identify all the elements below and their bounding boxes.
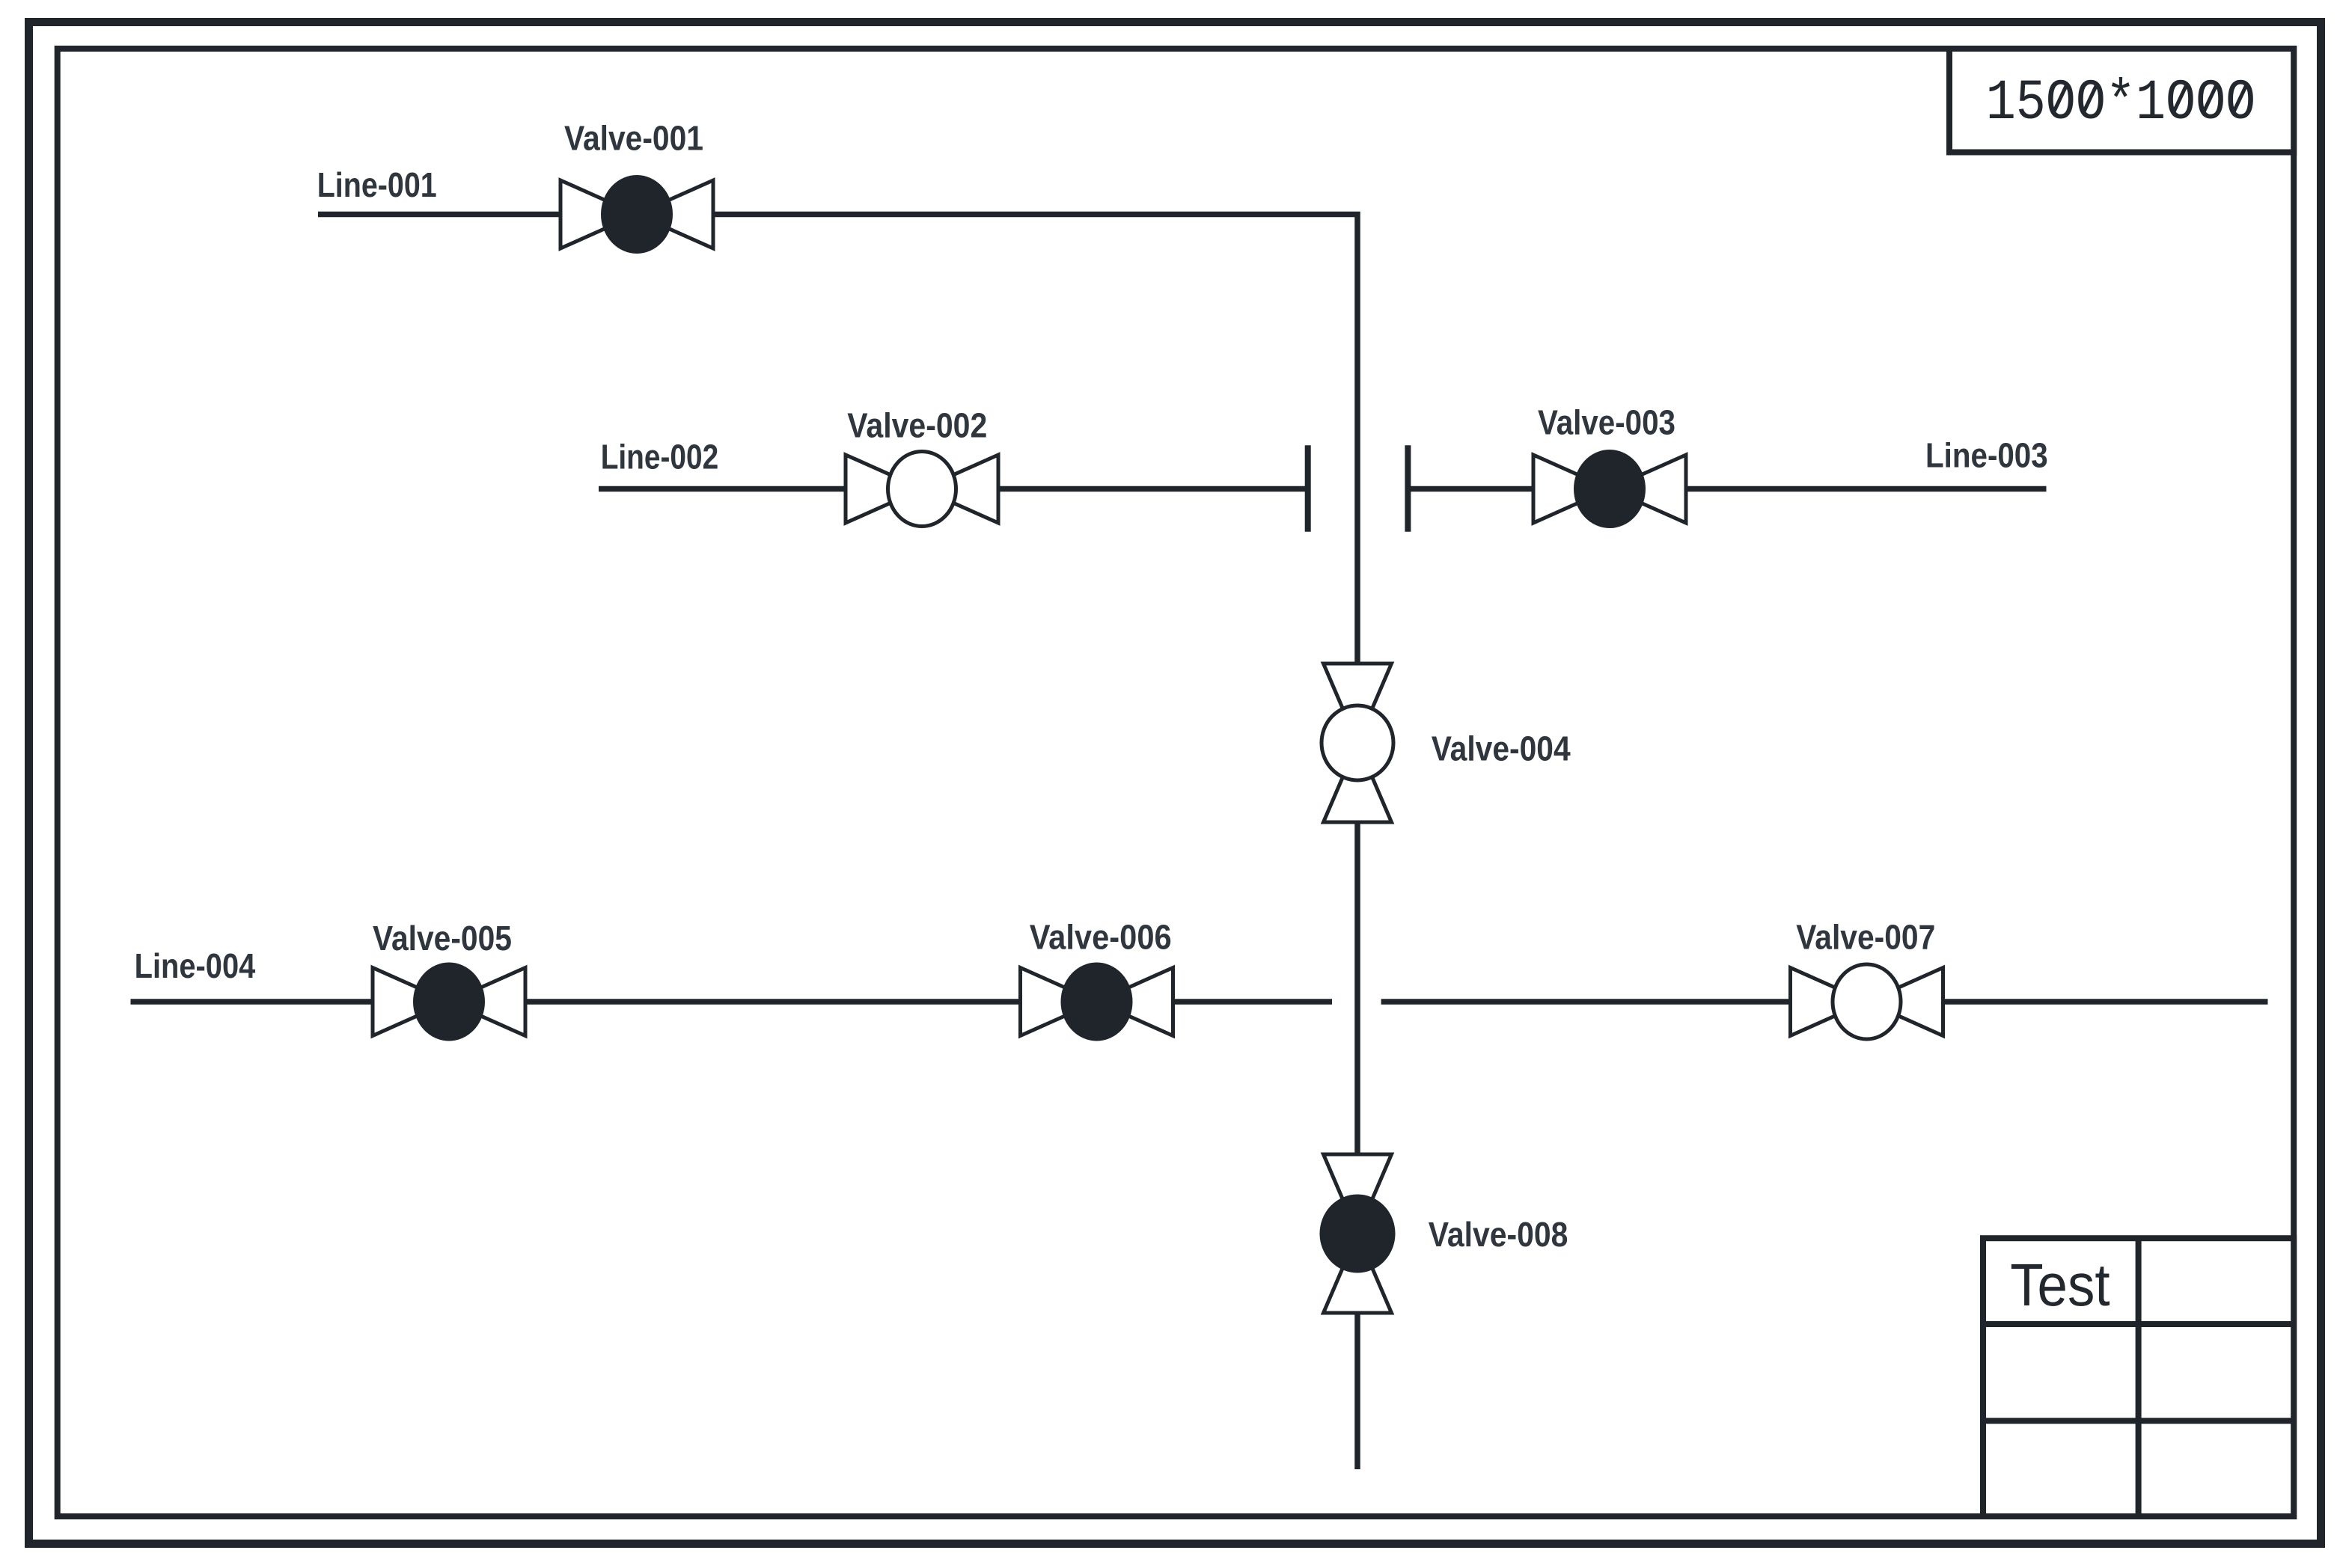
wire Line-004 right segment [1381,999,2268,1005]
valve Valve-004 (open ball valve, vertical) [1322,664,1393,822]
svg-text:Valve-007: Valve-007 [1796,918,1935,957]
valve Valve-007 (open ball valve) [1791,964,1943,1039]
valve Valve-002 (open ball valve) [846,452,998,527]
svg-text:Valve-006: Valve-006 [1030,918,1172,957]
flange cap start of Line-003 [1405,445,1411,532]
svg-text:15OO*1OOO: 15OO*1OOO [1986,71,2256,135]
flange cap end of Line-002 [1305,445,1311,532]
svg-text:Line-003: Line-003 [1925,436,2048,475]
svg-text:Line-002: Line-002 [601,437,719,476]
title box 1500*1000 [1949,49,2294,153]
svg-text:Valve-001: Valve-001 [564,119,703,158]
svg-text:Line-001: Line-001 [317,165,437,204]
wire Line-004 left segment [131,999,1333,1005]
svg-text:Line-004: Line-004 [135,946,256,985]
svg-text:Valve-005: Valve-005 [373,919,512,958]
valve Valve-003 (closed ball valve) [1533,452,1686,527]
valve Valve-001 (closed ball valve) [560,177,713,252]
title block table [1983,1238,2294,1516]
valve Valve-006 (closed ball valve) [1021,964,1173,1039]
wire Line-002 [599,486,1308,492]
wire Line-003 [1408,486,2046,492]
valve Valve-005 (closed ball valve) [373,964,525,1039]
wire Line-001 horizontal run [318,215,1357,1470]
svg-text:Valve-008: Valve-008 [1429,1215,1568,1254]
svg-text:Valve-004: Valve-004 [1432,729,1571,768]
valve Valve-008 (closed ball valve, vertical) [1322,1154,1393,1313]
svg-text:Test: Test [2010,1252,2110,1318]
svg-text:Valve-003: Valve-003 [1538,402,1675,441]
svg-text:Valve-002: Valve-002 [847,405,987,444]
